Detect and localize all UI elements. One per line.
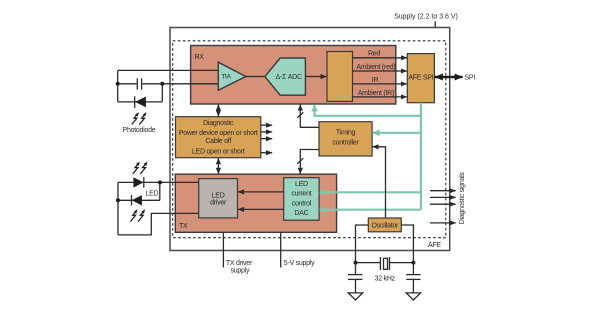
- svg-text:Cable off: Cable off: [205, 138, 231, 145]
- node: crystal left junction: [354, 261, 358, 265]
- svg-text:LED: LED: [146, 190, 159, 197]
- RX block: [191, 46, 396, 105]
- svg-text:Supply (2.2 to 3.6 V): Supply (2.2 to 3.6 V): [394, 14, 458, 21]
- node: photodiode left junction: [116, 82, 120, 86]
- bus slash: [297, 158, 303, 164]
- light arrows into photodiode: [132, 112, 147, 124]
- light arrows out of lower LED: [130, 209, 145, 221]
- wire: photodiode right vertical: [161, 84, 163, 102]
- LED D3 (lower, reversed): [132, 195, 142, 205]
- node: LED junction: [158, 180, 162, 184]
- AFE chip outer boundary: [170, 28, 450, 251]
- svg-text:Diagnostic signals: Diagnostic signals: [459, 172, 466, 225]
- capacitor C1 (left): [348, 263, 362, 293]
- sample buffer mux: [327, 52, 353, 102]
- svg-text:TIA: TIA: [221, 74, 231, 81]
- svg-text:AFE: AFE: [428, 242, 441, 249]
- svg-text:Red: Red: [368, 51, 380, 58]
- svg-text:supply: supply: [231, 268, 250, 275]
- svg-text:DAC: DAC: [294, 210, 308, 217]
- svg-text:driver: driver: [210, 199, 227, 206]
- wire: LED anode feed (upper) to LED driver: [118, 181, 199, 183]
- svg-text:5-V supply: 5-V supply: [284, 260, 315, 267]
- svg-text:LED: LED: [212, 192, 225, 199]
- svg-text:Ambient (IR): Ambient (IR): [358, 90, 394, 97]
- wire: crystal horizontal left: [356, 262, 381, 264]
- AFE inner dashed boundary: [173, 41, 446, 238]
- svg-text:TX: TX: [179, 223, 188, 230]
- svg-text:controller: controller: [332, 139, 359, 146]
- SPI bus double arrow: [435, 76, 463, 78]
- LED D2 (upper, emitting): [133, 177, 143, 187]
- wire: Ambient (red) channel to AFE SPI: [353, 70, 408, 72]
- svg-text:control: control: [292, 201, 312, 208]
- bus slash: [297, 112, 303, 118]
- ground (left): [348, 293, 362, 300]
- photodiode D1: [135, 96, 146, 108]
- node: crystal right junction: [411, 261, 415, 265]
- node: left LED junction: [116, 198, 120, 202]
- ADC delta-sigma: [265, 58, 306, 95]
- svg-text:Timing: Timing: [336, 130, 356, 137]
- node: photodiode right junction: [160, 82, 164, 86]
- teal control trunk from AFE SPI: [420, 103, 422, 210]
- wire: IR channel to AFE SPI: [353, 83, 408, 85]
- diagnostic signal outputs: [430, 190, 456, 192]
- svg-text:LED: LED: [295, 181, 308, 188]
- wire: lower LED up to node: [159, 182, 161, 200]
- LED current control DAC block: [284, 178, 319, 221]
- oscillator block: [368, 218, 401, 232]
- svg-text:RX: RX: [195, 54, 205, 61]
- svg-text:Photodiode: Photodiode: [123, 127, 156, 134]
- wire: photodiode middle branch / input 2 to TIA: [118, 83, 137, 85]
- wire: DAC to LED driver (lower): [238, 208, 284, 210]
- diagnostic block: [176, 117, 261, 158]
- wire: photodiode input 1 (top) to TIA: [118, 69, 219, 71]
- wire: TIA output to ADC: [246, 76, 265, 78]
- wire: DAC to LED driver (upper): [238, 191, 284, 193]
- svg-text:IR: IR: [372, 77, 379, 84]
- wire: oscillator to timing controller: [372, 147, 385, 218]
- svg-text:32 kHz: 32 kHz: [375, 275, 396, 282]
- svg-text:Power device open or short: Power device open or short: [179, 130, 258, 137]
- op-amp TIA: [218, 62, 246, 90]
- wire: diagnostic to TX (bidirectional): [217, 158, 219, 174]
- capacitor across photodiode: [136, 78, 138, 89]
- wire: oscillator left leg to crystal: [356, 225, 369, 263]
- crystal X1: [380, 257, 389, 270]
- wire: timing controller to TX (bus): [300, 150, 319, 174]
- wire: timing controller to RX (bus): [300, 104, 319, 127]
- wire: lower LED branch: [118, 199, 160, 201]
- wire: ADC to sample mux: [305, 76, 326, 78]
- ground (right): [406, 293, 420, 300]
- teal wire: to DAC (lower): [320, 209, 421, 211]
- AFE SPI block: [407, 54, 434, 103]
- teal wire: to timing controller: [373, 132, 421, 134]
- wire: RX to diagnostic (bidirectional): [217, 104, 219, 116]
- teal wire: to RX: [315, 105, 421, 116]
- svg-text:LED open or short: LED open or short: [192, 149, 245, 156]
- svg-text:TX driver: TX driver: [226, 260, 253, 267]
- TX block: [175, 174, 336, 232]
- svg-text:Diagnostic: Diagnostic: [203, 120, 234, 127]
- light arrows out of upper LED: [133, 162, 148, 174]
- wire: photodiode bottom branch: [118, 101, 163, 103]
- svg-text:Δ-Σ ADC: Δ-Σ ADC: [275, 74, 302, 81]
- svg-text:current: current: [291, 191, 311, 198]
- wire: 5-V supply lead: [280, 232, 282, 267]
- wire: oscillator right leg to crystal: [401, 225, 413, 263]
- teal wire: to DAC (upper): [320, 191, 421, 193]
- LED driver block: [199, 179, 238, 218]
- wire: crystal horizontal right: [390, 262, 414, 264]
- wire: Ambient (IR) channel to AFE SPI: [353, 96, 408, 98]
- capacitor C2 (right): [406, 263, 420, 293]
- wire: photodiode left vertical: [117, 70, 119, 102]
- wire: supply into chip: [434, 21, 436, 27]
- svg-text:Oscillator: Oscillator: [371, 223, 399, 230]
- svg-text:Ambient (red): Ambient (red): [356, 64, 395, 71]
- wire: Red channel to AFE SPI: [353, 57, 408, 59]
- svg-text:SPI: SPI: [465, 75, 476, 82]
- svg-text:AFE SPI: AFE SPI: [408, 75, 433, 82]
- wires: diagnostic flag outputs: [261, 124, 272, 126]
- wire: TX driver supply lead: [222, 232, 224, 267]
- timing controller block: [319, 122, 372, 156]
- wire: LED left vertical: [117, 182, 119, 235]
- wire: LED return bottom: [118, 213, 199, 235]
